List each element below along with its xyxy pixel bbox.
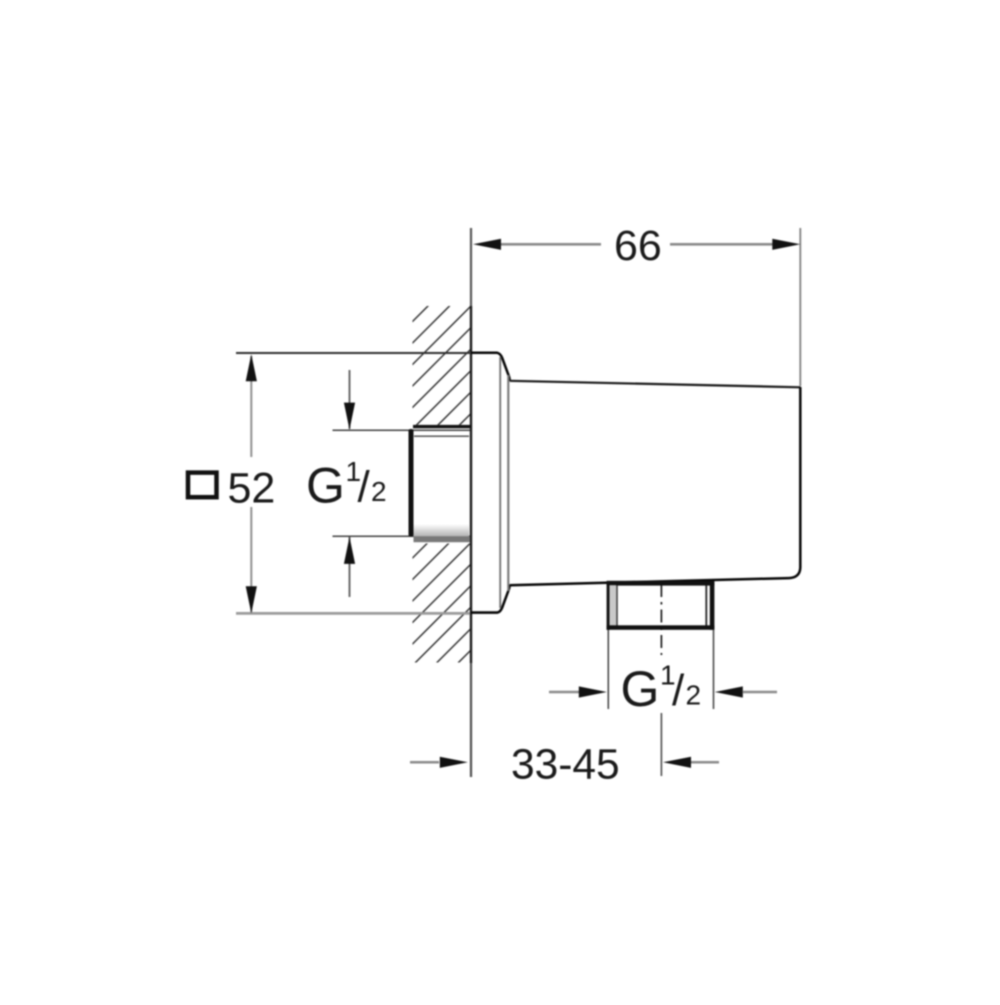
bottom G1/2 label — [621, 660, 702, 718]
flange top chamfer — [497, 353, 510, 381]
outlet stub right extension line — [713, 630, 715, 709]
flange inner contour line — [499, 357, 501, 608]
connector sleeve bottom shade gradient — [414, 524, 470, 536]
inner G1/2 dim line lower — [349, 537, 351, 597]
dim 52 top extension line — [236, 352, 471, 354]
wall hatch — [54, 290, 831, 680]
outlet stub top bar — [607, 581, 715, 586]
inner G1/2 upper arrow (points down) — [344, 403, 355, 430]
outlet stub left shade strip — [610, 585, 617, 625]
square symbol — [188, 473, 217, 498]
dim 66 right extension line — [799, 228, 801, 386]
bottom G1/2 dim line right — [743, 691, 777, 694]
dim 66 line left segment — [499, 243, 601, 246]
bottom G1/2 left arrow (points right) — [579, 686, 607, 697]
connector sleeve thread line — [414, 435, 469, 437]
dim 66 left arrow — [473, 239, 501, 250]
bottom G1/2 dim line left — [549, 691, 581, 694]
outlet stub left extension line — [607, 630, 609, 709]
dim 33-45 line left — [410, 761, 439, 764]
dim 33-45 left arrow (points right) — [440, 757, 468, 768]
dim 52 bottom extension line — [236, 612, 470, 615]
connector sleeve left edge — [409, 429, 414, 537]
inner G1/2 label — [306, 456, 387, 514]
outlet stub left inner thread line — [616, 585, 618, 625]
outlet center dash-dot line — [660, 584, 662, 655]
body top edge — [510, 381, 801, 388]
inner G1/2 lower arrow (points up) — [344, 537, 355, 564]
flange top edge — [471, 351, 498, 354]
dim 52 top arrow — [246, 354, 257, 381]
flange bottom edge — [471, 611, 498, 614]
dim 33-45 right arrow (points left) — [663, 757, 691, 768]
inner G1/2 top extension line — [333, 429, 471, 431]
svg-text:52: 52 — [228, 465, 276, 513]
svg-text:33-45: 33-45 — [511, 742, 620, 789]
dim 66 right arrow — [772, 239, 800, 250]
flange bottom chamfer — [497, 585, 510, 613]
outlet stub right edge — [710, 582, 715, 630]
dim 66 line right segment — [670, 243, 773, 246]
inner G1/2 dim line upper — [349, 370, 351, 429]
svg-text:G: G — [621, 661, 660, 717]
body bottom edge — [510, 578, 789, 585]
svg-text:G: G — [306, 458, 345, 514]
svg-text:/: / — [672, 666, 685, 715]
connector sleeve bottom gray edge — [414, 536, 471, 542]
svg-text:2: 2 — [686, 680, 702, 711]
dim 52 line — [250, 356, 252, 457]
dim 33-45 line right — [691, 761, 719, 764]
outlet stub left edge — [607, 582, 610, 630]
flange face line — [507, 375, 509, 591]
outlet center extension solid — [660, 713, 662, 776]
svg-text:66: 66 — [614, 222, 662, 270]
outlet stub right inner thread line — [705, 586, 707, 626]
inner G1/2 bottom extension line — [333, 535, 471, 537]
bottom G1/2 right arrow (points left) — [715, 686, 743, 697]
dim 52 bottom arrow — [246, 586, 257, 613]
body right edge with rounded bottom corner — [789, 387, 800, 578]
wall face line — [470, 228, 472, 306]
svg-text:/: / — [358, 463, 371, 512]
svg-text:2: 2 — [371, 476, 387, 507]
connector sleeve top bar — [413, 425, 471, 428]
outlet stub bottom bar — [607, 625, 715, 630]
